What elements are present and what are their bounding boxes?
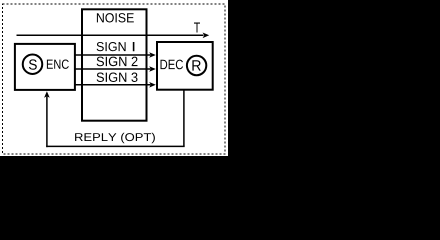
reply wire horizontal — [46, 145, 184, 147]
label DEC — [161, 60, 184, 70]
T axis arrowhead — [203, 33, 210, 39]
reply wire vertical from DEC — [183, 91, 185, 147]
T axis wire — [17, 34, 204, 36]
arrowhead SIGN 3 — [149, 82, 156, 88]
wire SIGN 3 — [75, 84, 151, 86]
reply arrowhead up into ENC — [44, 91, 50, 98]
decoder box DEC — [157, 42, 213, 90]
label T — [194, 23, 200, 33]
noise region box — [82, 9, 147, 120]
label REPLY (OPT) — [75, 133, 155, 144]
wire SIGN 1 — [75, 54, 151, 56]
label SIGN 1 — [97, 42, 135, 51]
source circle S — [23, 54, 43, 74]
arrowhead SIGN 1 — [149, 52, 156, 58]
label NOISE — [97, 13, 134, 22]
label R — [192, 60, 200, 70]
white page area — [0, 0, 228, 156]
label S — [29, 59, 37, 69]
label SIGN 2 — [97, 57, 138, 67]
wire SIGN 2 — [75, 68, 151, 70]
encoder box ENC — [15, 44, 75, 90]
label ENC — [47, 60, 69, 69]
receiver circle R — [187, 56, 206, 75]
label SIGN 3 — [97, 73, 138, 83]
dashed outer border — [3, 4, 226, 154]
arrowhead SIGN 2 — [149, 66, 156, 72]
reply wire vertical to ENC — [46, 97, 48, 148]
